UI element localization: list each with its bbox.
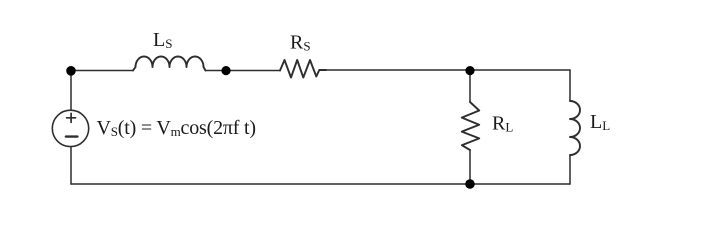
inductor LL (570, 101, 580, 155)
wire right branch upper (corner to LL) (569, 70, 571, 101)
wire top-left (node A to Ls) (71, 70, 133, 72)
wire RL to node D (469, 150, 471, 184)
resistor RL (462, 102, 479, 150)
wire node C down to RL (469, 70, 471, 102)
wire node C to top-right corner (470, 69, 570, 71)
wire source - to bottom-left corner (70, 147, 72, 184)
resistor Rs (280, 60, 326, 78)
wire Rs to node C (326, 69, 470, 71)
wire Ls to node B (206, 70, 227, 72)
inductor Ls (133, 57, 206, 71)
node B junction dot (221, 66, 230, 75)
wire bottom (node D to bottom-right corner) (470, 183, 570, 185)
wire bottom (left corner to node D) (71, 183, 470, 185)
wire node B to Rs (226, 70, 280, 72)
wire left branch upper (node A to source +) (70, 71, 72, 111)
node D junction dot (465, 179, 475, 189)
node C junction dot (465, 66, 474, 75)
voltage source VS (52, 110, 88, 146)
wire LL to bottom-right corner (569, 155, 571, 184)
node A junction dot (66, 66, 76, 76)
